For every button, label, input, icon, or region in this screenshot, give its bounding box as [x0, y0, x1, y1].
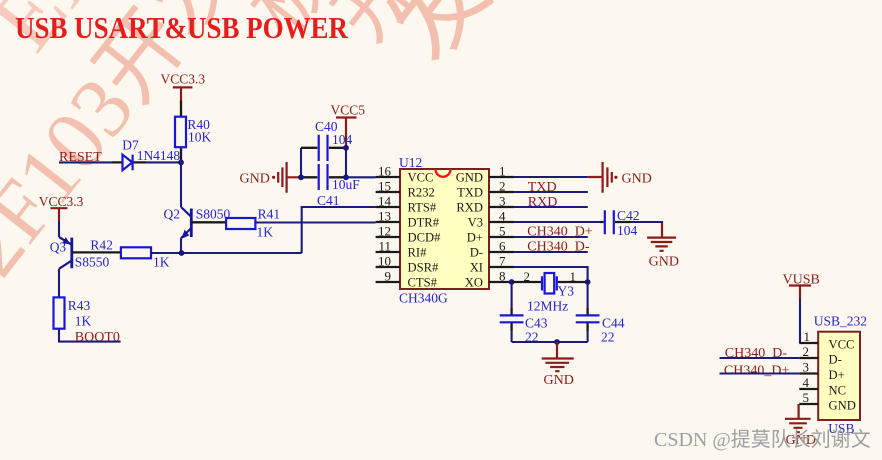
capacitor C44 22	[576, 282, 625, 345]
op-amp U12 CH340G chip body	[399, 155, 489, 306]
svg-text:2: 2	[524, 269, 531, 284]
power VCC3.3 (left, above Q3)	[39, 194, 84, 221]
wire cap left riser	[300, 148, 302, 178]
svg-text:GND: GND	[456, 171, 483, 185]
node junction Q2 emitter / rail	[179, 250, 185, 256]
node junction C40 right / VCC5	[343, 145, 349, 151]
svg-text:4: 4	[803, 375, 810, 390]
svg-text:11: 11	[378, 239, 391, 254]
wire riser to pin14 RTS#	[302, 207, 376, 253]
transistor Q3 S8550	[50, 237, 121, 270]
chip right pin stubs 1..8	[489, 177, 514, 282]
svg-text:13: 13	[378, 209, 391, 224]
wire VCC3.3 to Q3 emitter	[58, 221, 60, 237]
pin numbers right 1..8	[499, 164, 506, 284]
svg-text:Y3: Y3	[558, 284, 575, 299]
svg-text:R41: R41	[258, 207, 281, 222]
node junction D7/R40/Q2	[178, 160, 184, 166]
svg-text:GND: GND	[544, 373, 574, 388]
svg-text:2: 2	[803, 344, 810, 359]
wire pin2 TXD	[514, 191, 588, 193]
svg-text:1K: 1K	[257, 225, 274, 240]
wire to pin16 VCC	[346, 176, 376, 178]
svg-text:GND: GND	[649, 255, 679, 270]
svg-text:10K: 10K	[188, 130, 212, 145]
svg-text:VCC5: VCC5	[331, 103, 366, 118]
svg-text:6: 6	[499, 239, 506, 254]
node junction crystal right / C44 / pin7	[585, 279, 591, 285]
svg-text:1: 1	[804, 329, 811, 344]
wire cap right riser	[345, 148, 347, 178]
wire RESET to D7	[59, 161, 112, 163]
svg-text:16: 16	[378, 164, 392, 179]
capacitor C40 104	[301, 119, 353, 161]
svg-text:1: 1	[570, 269, 577, 284]
svg-text:12: 12	[378, 224, 391, 239]
diode D7 1N4148	[112, 138, 180, 171]
svg-text:DTR#: DTR#	[408, 216, 440, 230]
svg-text:C43: C43	[525, 316, 548, 331]
power VCC3.3 (top, above R40)	[161, 72, 206, 101]
svg-text:10: 10	[378, 254, 391, 269]
svg-text:DSR#: DSR#	[408, 261, 439, 275]
resistor R40	[175, 101, 212, 163]
svg-text:1: 1	[499, 164, 506, 179]
wire pin3 RXD	[514, 206, 588, 208]
svg-text:GND: GND	[622, 172, 652, 187]
svg-text:RXD: RXD	[528, 195, 558, 210]
ground below crystal	[542, 342, 574, 388]
svg-text:RI#: RI#	[408, 246, 428, 260]
resistor R43	[54, 297, 92, 328]
crystal Y3 12MHz	[512, 269, 588, 314]
svg-text:1K: 1K	[75, 314, 92, 329]
svg-text:RTS#: RTS#	[408, 201, 437, 215]
svg-text:VCC3.3: VCC3.3	[39, 194, 84, 209]
svg-text:104: 104	[332, 132, 353, 147]
ground below USB pin5	[785, 404, 816, 448]
capacitor C41 10uF	[301, 164, 360, 208]
svg-text:4: 4	[499, 209, 506, 224]
svg-text:V3: V3	[468, 216, 483, 230]
svg-text:3: 3	[803, 360, 810, 375]
svg-text:C42: C42	[617, 208, 640, 223]
pin numbers left 16..9	[378, 164, 392, 284]
svg-text:12MHz: 12MHz	[527, 299, 568, 314]
wire junction down to Q2 collector	[180, 162, 182, 207]
svg-text:VCC3.3: VCC3.3	[161, 72, 206, 87]
svg-text:5: 5	[499, 224, 506, 239]
resistor R41	[226, 207, 280, 240]
wire VUSB to pin1	[799, 299, 801, 343]
svg-text:D-: D-	[470, 246, 483, 260]
svg-text:CH340G: CH340G	[399, 291, 448, 306]
wire R43 to BOOT0	[59, 329, 121, 342]
svg-text:S8550: S8550	[75, 255, 110, 270]
svg-text:R232: R232	[408, 186, 435, 200]
ground GND (left power-ground symbol)	[240, 162, 302, 193]
wire D7 to junction	[146, 161, 181, 163]
svg-text:XO: XO	[465, 276, 483, 290]
wire CH340_D- to pin2	[720, 357, 800, 359]
svg-text:D+: D+	[467, 231, 483, 245]
wire R41 to pin13 DTR#	[255, 221, 375, 223]
wire rail R42 to pin14 riser	[151, 252, 302, 254]
svg-text:1K: 1K	[153, 255, 170, 270]
svg-text:NC: NC	[829, 384, 847, 398]
svg-text:2: 2	[499, 179, 506, 194]
svg-text:VCC: VCC	[829, 338, 855, 352]
svg-text:U12: U12	[399, 155, 422, 170]
wire pin7 XI to crystal right	[514, 267, 588, 282]
svg-text:15: 15	[378, 179, 391, 194]
capacitor C43 22	[500, 282, 548, 345]
chip left pin stubs 16..9	[376, 177, 400, 282]
chip pin names left column	[408, 171, 442, 290]
svg-text:R42: R42	[90, 238, 113, 253]
svg-text:7: 7	[499, 254, 506, 269]
wire pin1 to GND	[514, 176, 588, 178]
node junction pin8 / crystal / C43	[509, 279, 515, 285]
capacitor C42 104	[600, 208, 640, 238]
svg-text:CH340_D+: CH340_D+	[527, 225, 593, 240]
svg-text:5: 5	[803, 390, 810, 405]
connector pin names	[829, 338, 856, 413]
svg-text:GND: GND	[240, 172, 270, 187]
svg-text:8: 8	[499, 269, 506, 284]
svg-text:CTS#: CTS#	[408, 276, 438, 290]
svg-text:VCC: VCC	[408, 171, 434, 185]
svg-text:CH340_D-: CH340_D-	[527, 240, 590, 255]
node junction C41 right / pin16	[343, 174, 349, 180]
svg-text:TXD: TXD	[457, 186, 483, 200]
svg-text:14: 14	[378, 194, 392, 209]
svg-text:D+: D+	[829, 368, 845, 382]
wire pin4 V3 to C42	[514, 221, 600, 223]
connector USB_232 body	[814, 314, 867, 437]
svg-text:R43: R43	[68, 298, 91, 313]
watermark diagonal text 2F103	[0, 0, 509, 293]
svg-text:GND: GND	[829, 399, 856, 413]
svg-text:C44: C44	[602, 316, 625, 331]
svg-text:RXD: RXD	[456, 201, 483, 215]
power VCC5	[331, 103, 366, 148]
transistor Q2 S8050	[164, 207, 231, 239]
svg-text:USB_232: USB_232	[814, 314, 867, 329]
connector pin stubs 1..5	[799, 343, 818, 404]
svg-text:CSDN @提莫队长刘谢文: CSDN @提莫队长刘谢文	[654, 428, 871, 451]
wire pin6 CH340_D-	[514, 251, 588, 253]
svg-text:BOOT0: BOOT0	[75, 330, 120, 345]
wire pin5 CH340_D+	[514, 236, 588, 238]
svg-text:Q2: Q2	[164, 207, 181, 222]
connector pin numbers	[803, 329, 811, 405]
svg-text:D-: D-	[829, 353, 842, 367]
svg-text:104: 104	[617, 223, 638, 238]
wire C42 to ground	[631, 222, 662, 224]
node junction bottom rail / GND	[554, 339, 560, 345]
wire Q3 collector down to R43	[58, 269, 60, 298]
svg-text:3: 3	[499, 194, 506, 209]
power VUSB	[783, 273, 820, 300]
resistor R42	[90, 238, 169, 270]
svg-text:USB USART&USB POWER: USB USART&USB POWER	[15, 11, 349, 45]
wire bottom crystal rail	[512, 341, 588, 343]
svg-text:1N4148: 1N4148	[137, 148, 181, 163]
svg-text:DCD#: DCD#	[408, 231, 442, 245]
wire CH340_D+ to pin3	[720, 372, 800, 374]
svg-text:XI: XI	[470, 261, 483, 275]
svg-text:22: 22	[601, 330, 615, 345]
node junction C41 left / GND	[298, 174, 304, 180]
chip pin names right column	[456, 171, 483, 290]
svg-text:CH340_D+: CH340_D+	[724, 364, 790, 379]
svg-text:9: 9	[385, 269, 392, 284]
svg-text:TXD: TXD	[528, 180, 557, 195]
svg-text:C41: C41	[317, 193, 340, 208]
wire Q2 emitter down to rail	[180, 238, 182, 253]
svg-text:Q3: Q3	[50, 240, 67, 255]
ground below C42	[647, 223, 679, 270]
ground GND (right power-ground symbol)	[588, 162, 652, 193]
